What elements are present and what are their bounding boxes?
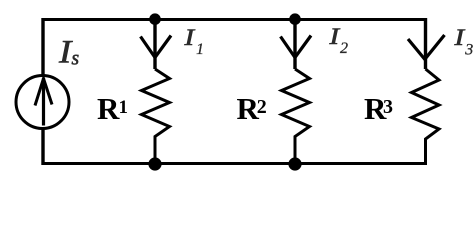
- svg-text:1: 1: [196, 41, 204, 58]
- svg-text:3: 3: [383, 96, 393, 118]
- svg-text:2: 2: [257, 96, 267, 118]
- svg-text:3: 3: [464, 42, 473, 59]
- svg-text:s: s: [72, 49, 80, 70]
- svg-text:R: R: [97, 91, 120, 126]
- svg-text:1: 1: [119, 97, 129, 118]
- svg-text:2: 2: [340, 40, 348, 57]
- svg-text:I: I: [453, 25, 465, 51]
- svg-text:I: I: [183, 25, 195, 51]
- svg-text:I: I: [328, 24, 340, 50]
